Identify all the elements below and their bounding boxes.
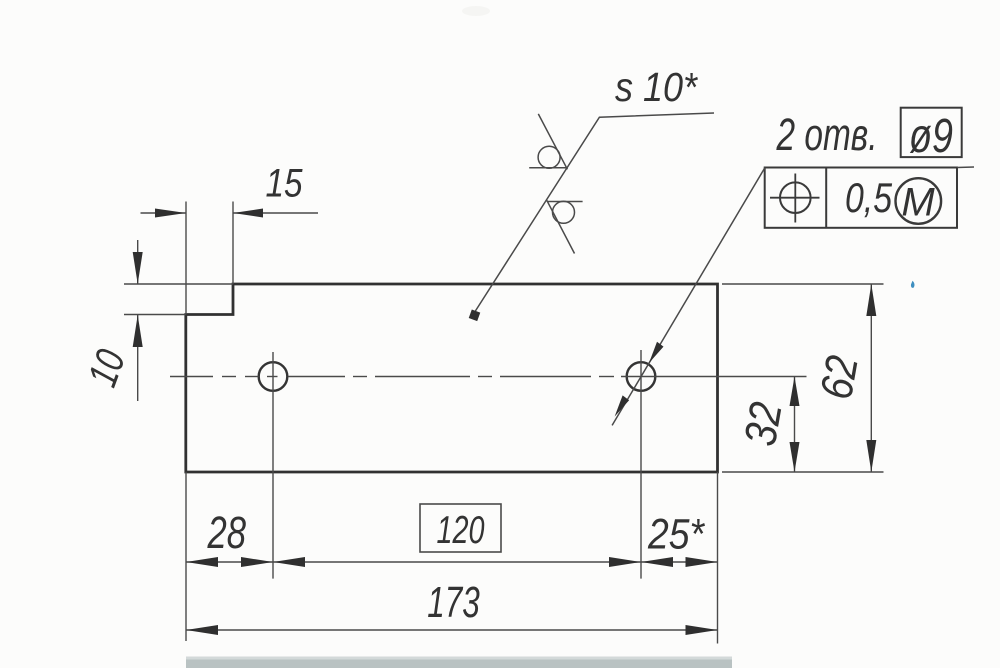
frame top-right tick <box>957 166 974 169</box>
dim 10 extension line top <box>124 283 233 285</box>
top faint smudge <box>462 6 490 16</box>
svg-text:s 10*: s 10* <box>615 64 699 110</box>
svg-text:15: 15 <box>266 162 304 206</box>
dim 15 arrow left <box>155 209 186 218</box>
thickness leader polyline <box>474 113 714 314</box>
dim 120 arrow right <box>609 557 641 567</box>
dim 10 arrow up <box>133 315 143 347</box>
plate outline <box>186 284 718 472</box>
dim 28 arrow left <box>186 557 218 567</box>
blue ink mark <box>911 281 915 288</box>
feature control frame divider <box>825 168 827 228</box>
svg-text:28: 28 <box>207 507 246 558</box>
svg-text:25*: 25* <box>647 511 705 559</box>
hole right <box>627 362 656 391</box>
weld symbol 1 tick <box>538 114 567 169</box>
dim 32 arrow down <box>790 442 800 472</box>
dim 62 arrow down <box>866 440 876 472</box>
svg-text:M: M <box>901 181 935 225</box>
svg-text:2 отв.: 2 отв. <box>776 109 878 160</box>
dim 173 arrow right <box>686 625 718 635</box>
position symbol circle <box>780 182 811 213</box>
weld symbol 1 base line <box>529 167 567 169</box>
dim 10 arrow down <box>133 252 143 284</box>
dim 173 line <box>186 629 718 631</box>
svg-text:ø9: ø9 <box>909 110 953 163</box>
weld symbol 2 circle <box>553 201 575 223</box>
dim 10 tail top <box>137 240 139 284</box>
dim 15 extension line left <box>185 202 187 315</box>
dim 25 arrow left <box>641 557 673 567</box>
svg-text:32: 32 <box>734 398 792 449</box>
vertical centerline right hole <box>640 350 642 579</box>
bottom extension line right edge <box>717 472 719 644</box>
dim chain line 28-120-25 <box>186 561 718 563</box>
dim 62 extension line bottom <box>722 471 884 473</box>
dim 120 arrow left <box>273 557 305 567</box>
dia 9 box <box>901 108 962 157</box>
svg-text:120: 120 <box>437 509 485 552</box>
dim 62 arrow up <box>866 284 876 316</box>
svg-text:62: 62 <box>810 352 868 403</box>
feature control frame <box>765 168 957 228</box>
dim 62 extension line top <box>722 283 884 285</box>
dim 15 tail right <box>233 212 318 214</box>
bottom extension line left edge <box>185 472 187 641</box>
svg-text:0,5: 0,5 <box>845 174 893 221</box>
dim 15 arrow right <box>233 209 263 218</box>
dim 25 arrow right <box>686 557 718 567</box>
weld symbol 1 circle <box>538 146 560 168</box>
dim 15 tail left <box>141 212 187 214</box>
dim 120 box <box>420 504 501 552</box>
dim 173 arrow left <box>186 625 218 635</box>
dim 62 line <box>870 284 872 472</box>
leader to holes <box>612 168 765 426</box>
hole left <box>259 362 288 391</box>
position symbol cross horizontal <box>770 197 820 199</box>
dim 15 extension line right <box>232 202 234 285</box>
scanner shadow band bottom <box>186 657 732 660</box>
dim 32 arrow up <box>790 377 800 407</box>
dim 10 tail bottom <box>137 315 139 401</box>
weld symbol 2 base line <box>547 201 583 203</box>
leader arrow lower <box>615 395 630 416</box>
position symbol cross vertical <box>794 174 796 223</box>
svg-text:173: 173 <box>427 578 480 627</box>
horizontal centerline <box>170 376 807 378</box>
leader arrow upper <box>649 342 664 363</box>
dim 28 arrow right <box>241 557 273 567</box>
dim 32 line <box>794 377 796 473</box>
dim 10 extension line bottom <box>124 314 186 316</box>
vertical centerline left hole <box>272 352 274 579</box>
M modifier circle <box>896 178 942 224</box>
thickness leader square dot <box>469 310 481 322</box>
weld symbol 2 tick <box>547 200 575 253</box>
